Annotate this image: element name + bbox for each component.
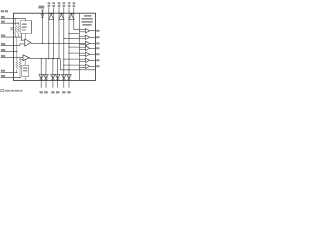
diode D1 xyxy=(49,14,54,20)
pin label T1 xyxy=(48,2,51,7)
diode D2 xyxy=(59,14,64,20)
resistor R3 xyxy=(15,19,17,37)
comparator U7 xyxy=(79,35,99,39)
label R note xyxy=(10,27,12,30)
resistor R4 xyxy=(17,23,19,37)
pin wire IN8 xyxy=(1,75,21,78)
label block title rows xyxy=(81,15,92,26)
main IC box U1 xyxy=(13,13,95,80)
pin wire IN6 xyxy=(1,55,23,58)
pin label T5 xyxy=(68,2,71,7)
comparator U10 xyxy=(79,52,99,56)
wire top pin 6 xyxy=(74,7,86,29)
pin label B3 xyxy=(51,91,54,93)
diode D3 xyxy=(69,14,74,20)
wire top pin 4 xyxy=(63,7,65,80)
node junctions bottom rail xyxy=(63,69,64,70)
pin label top-left B xyxy=(5,10,8,12)
pin label B6 xyxy=(67,91,70,93)
diode D0 xyxy=(41,14,44,18)
legend note text xyxy=(5,90,23,92)
wire top pin 3 xyxy=(58,7,60,58)
wire feed comp4 xyxy=(69,46,79,48)
pin label T6 xyxy=(73,2,76,7)
comparator U8 xyxy=(79,41,99,45)
pin label top-left A xyxy=(1,10,4,12)
comparator U6 xyxy=(79,29,99,33)
pin label B5 xyxy=(62,91,65,93)
wire feed comp6 xyxy=(64,58,80,60)
reference box U2 xyxy=(21,21,32,39)
pin label B2 xyxy=(44,91,47,93)
pin wire IN4 xyxy=(1,43,25,46)
wire VREF pin xyxy=(41,10,43,44)
wire top pin 2 xyxy=(53,7,55,58)
pin wire IN1 xyxy=(1,16,26,21)
pin wire IN7 xyxy=(1,70,18,73)
diode D7 xyxy=(55,75,60,80)
wire feed comp7 xyxy=(64,64,80,66)
pin wire IN3 xyxy=(1,35,22,38)
legend note box xyxy=(1,89,4,91)
wire feed comp5 xyxy=(69,52,79,54)
diode D5 xyxy=(44,75,49,80)
wire feed comp2 xyxy=(69,33,79,35)
pin wire IN2 xyxy=(1,21,20,24)
pin label T3 xyxy=(58,2,61,7)
wire bottom pin 5 xyxy=(63,80,65,87)
comparator U11 xyxy=(79,58,99,62)
pin wire IN5 xyxy=(1,49,18,52)
pin label B1 xyxy=(40,91,43,93)
pin label VREF top xyxy=(39,6,45,9)
wire top pin 1 xyxy=(48,7,50,58)
op-amp U4 xyxy=(19,55,29,61)
wire internal bottom rail xyxy=(60,59,95,70)
wire bottom pin 4 xyxy=(57,59,59,88)
pin label B4 xyxy=(56,91,59,93)
wire bottom pin 1 xyxy=(40,59,42,88)
comparator U12 xyxy=(79,64,99,68)
wire lower rail xyxy=(29,58,60,60)
wire bottom pin 2 xyxy=(45,59,47,88)
wire mid rail VREF xyxy=(31,42,86,44)
comparator U9 xyxy=(79,46,99,50)
diode D4 xyxy=(39,75,44,80)
resistor R6 xyxy=(16,37,18,72)
pin label T2 xyxy=(52,2,55,7)
wire bottom pin 6 xyxy=(68,80,70,87)
op-amp U3 xyxy=(21,33,31,46)
diode D9 xyxy=(67,75,72,80)
wire top pin 5 xyxy=(68,7,70,80)
logic box U5 xyxy=(22,60,29,80)
resistor R7 xyxy=(19,59,21,77)
pin label T4 xyxy=(63,2,66,7)
node partition bus xyxy=(78,13,80,80)
wire feed comp2b xyxy=(64,37,80,39)
wire bottom pin 3 xyxy=(52,59,54,88)
diode D8 xyxy=(62,75,67,80)
diode D6 xyxy=(51,75,56,80)
